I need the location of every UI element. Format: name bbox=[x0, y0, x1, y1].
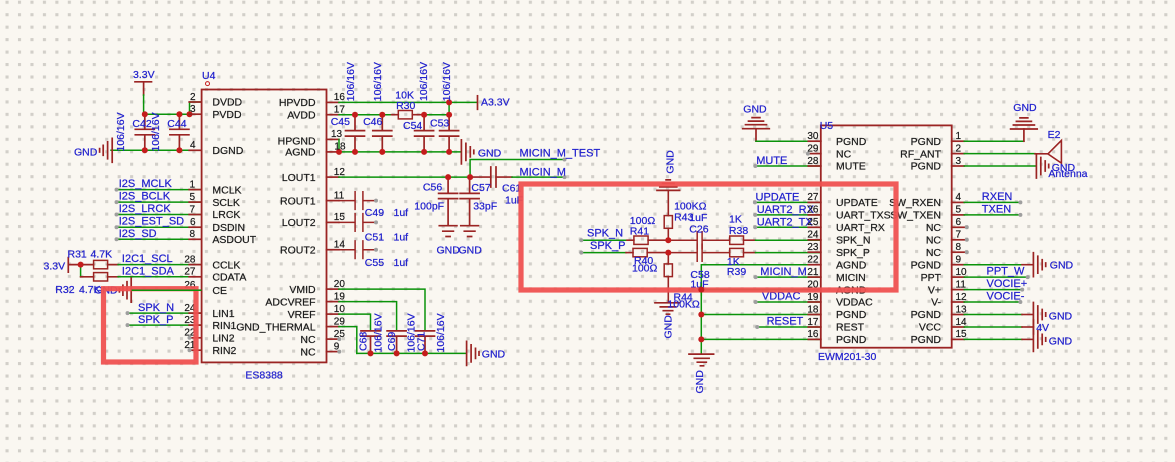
svg-text:GND: GND bbox=[478, 148, 502, 160]
svg-text:24: 24 bbox=[807, 230, 819, 241]
power port 3.3V (top left) bbox=[135, 82, 152, 95]
op-amp/codec IC U4 body bbox=[202, 90, 327, 363]
svg-text:GND: GND bbox=[459, 245, 483, 257]
capacitor C46 bbox=[373, 115, 392, 152]
svg-text:2: 2 bbox=[190, 92, 196, 103]
svg-text:U5: U5 bbox=[820, 120, 834, 132]
svg-text:25: 25 bbox=[807, 217, 819, 228]
wire RXEN bbox=[964, 201, 1020, 203]
wire PGND pin30 bbox=[756, 140, 821, 142]
wire UPDATE bbox=[755, 201, 821, 203]
svg-text:PGND: PGND bbox=[911, 259, 942, 271]
wire PPT_W bbox=[964, 276, 1027, 278]
wire SPK_N (middle) bbox=[581, 239, 627, 241]
svg-text:11: 11 bbox=[334, 190, 345, 201]
wire PGND pin15 bbox=[964, 338, 1022, 340]
svg-text:106/16V: 106/16V bbox=[372, 313, 384, 352]
svg-text:EWM201-30: EWM201-30 bbox=[818, 351, 877, 363]
RF module U5 body bbox=[821, 125, 952, 347]
svg-text:GND: GND bbox=[663, 315, 675, 339]
wire pullup vertical bbox=[80, 265, 82, 277]
svg-text:19: 19 bbox=[334, 291, 346, 302]
wire I2S_SD bbox=[117, 238, 202, 240]
svg-text:5: 5 bbox=[189, 192, 195, 203]
ground GND (above R43) bbox=[657, 180, 680, 191]
svg-text:NC: NC bbox=[926, 235, 942, 247]
svg-text:VMID: VMID bbox=[289, 284, 316, 296]
svg-text:1uf: 1uf bbox=[394, 231, 409, 243]
svg-text:UPDATE: UPDATE bbox=[836, 197, 878, 209]
svg-text:RIN1: RIN1 bbox=[212, 320, 236, 332]
svg-text:17: 17 bbox=[807, 317, 819, 328]
svg-text:C69: C69 bbox=[386, 332, 398, 351]
wire overdraw gnd chain through highlight bbox=[700, 283, 702, 296]
svg-text:3: 3 bbox=[190, 104, 196, 115]
svg-text:CE: CE bbox=[212, 285, 227, 297]
wire AVDD y=114.7 bbox=[339, 114, 449, 116]
svg-text:13: 13 bbox=[331, 129, 343, 140]
svg-text:RXEN: RXEN bbox=[982, 191, 1013, 203]
svg-text:NC: NC bbox=[836, 148, 852, 160]
wire I2C1_SDA bbox=[118, 276, 202, 278]
svg-text:C45: C45 bbox=[331, 116, 350, 128]
svg-text:UPDATE: UPDATE bbox=[756, 191, 800, 203]
U4 NC stubs gray ends bbox=[188, 336, 192, 352]
capacitor C26 (series SPK_N) bbox=[668, 232, 729, 249]
svg-text:10: 10 bbox=[956, 267, 968, 278]
wire CE to ground bbox=[131, 289, 201, 291]
svg-text:3.3V: 3.3V bbox=[44, 261, 66, 273]
power port 4V bar bbox=[1032, 320, 1034, 334]
resistor R43 bbox=[664, 190, 672, 240]
svg-text:VREF: VREF bbox=[288, 309, 316, 321]
svg-text:GND: GND bbox=[743, 103, 767, 115]
svg-text:29: 29 bbox=[334, 316, 346, 327]
svg-text:UART_TXS: UART_TXS bbox=[836, 210, 891, 222]
wire PVDD net y=114.2 bbox=[144, 113, 202, 115]
svg-text:V+: V+ bbox=[928, 284, 941, 296]
resistor R41 bbox=[634, 236, 668, 244]
svg-text:REST: REST bbox=[836, 322, 865, 334]
svg-text:GND_THERMAL: GND_THERMAL bbox=[236, 321, 316, 333]
svg-text:13: 13 bbox=[956, 304, 968, 315]
svg-text:ES8388: ES8388 bbox=[245, 370, 283, 382]
svg-text:PPT_W: PPT_W bbox=[987, 266, 1026, 278]
svg-text:SCLK: SCLK bbox=[212, 197, 239, 209]
svg-text:106/16V: 106/16V bbox=[435, 313, 447, 352]
svg-text:GND: GND bbox=[437, 245, 461, 257]
svg-text:100pF: 100pF bbox=[414, 200, 444, 212]
U5 right pin numbers bbox=[956, 131, 968, 340]
capacitor C53 bbox=[440, 115, 459, 152]
wire RESET bbox=[757, 326, 821, 328]
svg-text:VOCIE-: VOCIE- bbox=[987, 291, 1025, 303]
svg-text:21: 21 bbox=[807, 267, 819, 278]
wire DGND net y=150.3 bbox=[111, 149, 202, 151]
U5 left pin stubs bbox=[808, 141, 821, 339]
svg-text:18: 18 bbox=[334, 142, 346, 153]
ground GND (C56) bbox=[439, 226, 457, 237]
resistor R38 bbox=[730, 236, 756, 244]
svg-text:GND: GND bbox=[665, 150, 677, 174]
U4 designator circle bbox=[206, 82, 210, 86]
highlight rectangle 2 (SPK/UART group) bbox=[521, 184, 896, 290]
wire SPK_N (LIN1) bbox=[128, 312, 202, 314]
ground GND (AGND row) bbox=[461, 140, 473, 164]
wire LOUT1 / MICIN_M y=177.1 bbox=[339, 176, 470, 178]
svg-text:9: 9 bbox=[334, 341, 340, 352]
wire DVDD pin2 vertical bbox=[190, 102, 202, 114]
U4 left pin names bbox=[212, 97, 256, 357]
svg-text:ROUT1: ROUT1 bbox=[280, 195, 316, 207]
svg-text:C55: C55 bbox=[365, 257, 384, 269]
svg-text:LIN2: LIN2 bbox=[212, 333, 234, 345]
power port 3.3V (I2C pullups) bbox=[68, 258, 80, 273]
capacitor C69 bbox=[387, 331, 406, 354]
junction dots AVDD/AGND rows bbox=[336, 99, 452, 154]
svg-text:I2S_LRCK: I2S_LRCK bbox=[119, 203, 172, 215]
svg-text:V-: V- bbox=[931, 297, 941, 309]
capacitor C68 bbox=[361, 331, 380, 354]
svg-text:ASDOUT: ASDOUT bbox=[212, 234, 256, 246]
svg-text:MUTE: MUTE bbox=[836, 161, 866, 173]
svg-text:17: 17 bbox=[334, 105, 346, 116]
svg-text:I2S_SD: I2S_SD bbox=[119, 228, 157, 240]
capacitor C58 (series SPK_P) bbox=[668, 244, 729, 261]
capacitor C57 bbox=[460, 177, 479, 226]
wire MICIN_M to U5 bbox=[756, 276, 821, 278]
wire SPK_P (RIN1) bbox=[128, 324, 202, 326]
svg-text:18: 18 bbox=[807, 304, 819, 315]
capacitor C51 (LOUT2) bbox=[339, 214, 376, 232]
wire I2S_MCLK bbox=[117, 189, 202, 191]
wire UART2_RX bbox=[755, 214, 821, 216]
wire VOCIE- bbox=[964, 301, 1020, 303]
svg-text:5: 5 bbox=[956, 205, 962, 216]
svg-text:GND: GND bbox=[1049, 311, 1073, 323]
svg-text:106/16V: 106/16V bbox=[372, 62, 384, 101]
svg-text:MICIN: MICIN bbox=[836, 272, 866, 284]
svg-text:E2: E2 bbox=[1048, 129, 1061, 141]
svg-text:16: 16 bbox=[807, 329, 819, 340]
svg-text:25: 25 bbox=[334, 329, 346, 340]
svg-text:GND: GND bbox=[694, 370, 706, 394]
resistor R40 bbox=[633, 248, 668, 256]
svg-text:I2S_MCLK: I2S_MCLK bbox=[119, 178, 173, 190]
svg-text:PGND: PGND bbox=[911, 161, 942, 173]
svg-text:NC: NC bbox=[300, 334, 316, 346]
svg-text:4: 4 bbox=[956, 192, 962, 203]
U4 right pin names bbox=[236, 97, 316, 358]
U4 right pin stubs bbox=[327, 102, 339, 351]
svg-text:GND: GND bbox=[1013, 102, 1037, 114]
svg-text:12: 12 bbox=[956, 292, 968, 303]
wire PGND pin3 bbox=[964, 165, 1036, 167]
junction dot pullup bbox=[78, 262, 84, 268]
wire SPK_P (middle) bbox=[581, 252, 626, 254]
ground GND (pin9) bbox=[1033, 253, 1045, 277]
svg-text:1uf: 1uf bbox=[394, 207, 409, 219]
text layer bbox=[44, 62, 1088, 394]
svg-text:GND: GND bbox=[482, 349, 506, 361]
svg-text:GND: GND bbox=[1050, 260, 1074, 272]
svg-text:AVDD: AVDD bbox=[287, 109, 316, 121]
svg-text:106/16V: 106/16V bbox=[418, 62, 430, 101]
svg-text:C46: C46 bbox=[363, 116, 382, 128]
U5 left pin names bbox=[836, 136, 891, 346]
svg-text:1uf: 1uf bbox=[394, 257, 409, 269]
svg-text:1: 1 bbox=[189, 179, 195, 190]
svg-text:30: 30 bbox=[807, 131, 819, 142]
svg-text:23: 23 bbox=[807, 242, 819, 253]
wire VOCIE+ bbox=[964, 289, 1022, 291]
wire VCC 4V pin14 bbox=[964, 326, 1022, 328]
capacitor C42 bbox=[135, 114, 154, 150]
svg-text:HPGND: HPGND bbox=[278, 135, 316, 147]
wire TXEN bbox=[964, 214, 1020, 216]
wire SPK_N to U5 bbox=[756, 239, 821, 241]
resistor R31 bbox=[81, 260, 119, 268]
svg-text:15: 15 bbox=[334, 212, 346, 223]
svg-text:27: 27 bbox=[807, 192, 819, 203]
svg-text:LRCK: LRCK bbox=[212, 209, 240, 221]
svg-text:R38: R38 bbox=[729, 225, 748, 237]
svg-text:DGND: DGND bbox=[212, 145, 243, 157]
svg-text:SPK_P: SPK_P bbox=[836, 247, 870, 259]
wire bottom gnd rail y=353.4 bbox=[357, 352, 466, 354]
svg-text:CDATA: CDATA bbox=[212, 272, 246, 284]
svg-text:7: 7 bbox=[956, 230, 962, 241]
svg-text:MICIN_M: MICIN_M bbox=[760, 266, 806, 278]
junction dots left power bbox=[142, 111, 193, 153]
svg-text:C54: C54 bbox=[403, 120, 422, 132]
capacitor C44 bbox=[170, 114, 189, 150]
antenna E2 bbox=[1048, 140, 1062, 163]
wire RF_ANT pin2 bbox=[964, 153, 1035, 155]
junction dots gnd chain bbox=[698, 312, 704, 343]
svg-text:106/16V: 106/16V bbox=[115, 112, 127, 151]
resistor R30 bbox=[398, 111, 412, 119]
wire PGND pin16 bbox=[701, 338, 821, 340]
svg-text:SPK_P: SPK_P bbox=[590, 240, 625, 252]
svg-text:VCC: VCC bbox=[919, 322, 942, 334]
svg-text:SPK_N: SPK_N bbox=[836, 235, 870, 247]
svg-text:14: 14 bbox=[956, 317, 968, 328]
U5 left pin numbers bbox=[807, 131, 819, 340]
svg-text:6: 6 bbox=[190, 217, 196, 228]
ground GND (CE pin) bbox=[119, 278, 131, 302]
svg-text:15: 15 bbox=[956, 329, 968, 340]
svg-text:SPK_N: SPK_N bbox=[138, 302, 174, 314]
capacitor C56 bbox=[439, 177, 458, 226]
svg-text:GND: GND bbox=[1049, 336, 1073, 348]
capacitor C54 bbox=[415, 115, 434, 152]
ground GND (C57) bbox=[461, 226, 479, 237]
svg-text:26: 26 bbox=[807, 205, 819, 216]
svg-text:I2S_EST_SD: I2S_EST_SD bbox=[119, 216, 184, 228]
svg-text:C57: C57 bbox=[471, 182, 490, 194]
U5 right pin stubs bbox=[952, 141, 965, 339]
svg-text:4.7K: 4.7K bbox=[91, 249, 113, 261]
wire AGND pin20 bbox=[701, 289, 821, 291]
svg-text:NC: NC bbox=[300, 346, 316, 358]
svg-text:PGND: PGND bbox=[836, 334, 867, 346]
svg-text:MICIN_M_TEST: MICIN_M_TEST bbox=[520, 148, 601, 160]
svg-text:U4: U4 bbox=[202, 70, 216, 82]
svg-text:10: 10 bbox=[334, 304, 346, 315]
svg-text:16: 16 bbox=[334, 92, 346, 103]
wire 3.3V vertical drop bbox=[143, 95, 145, 114]
ground GND (pin13) bbox=[1033, 303, 1045, 327]
resistor R32 bbox=[81, 273, 119, 281]
svg-text:R30: R30 bbox=[396, 100, 415, 112]
svg-text:22: 22 bbox=[807, 255, 819, 266]
svg-text:R31: R31 bbox=[68, 249, 87, 261]
ground GND (pin30) bbox=[743, 118, 770, 142]
svg-text:28: 28 bbox=[184, 254, 196, 265]
svg-text:UART2_RX: UART2_RX bbox=[757, 204, 815, 216]
svg-text:I2C1_SDA: I2C1_SDA bbox=[122, 265, 175, 277]
svg-text:PGND: PGND bbox=[911, 136, 942, 148]
svg-text:PGND: PGND bbox=[836, 309, 867, 321]
svg-text:PGND: PGND bbox=[836, 136, 867, 148]
svg-text:3.3V: 3.3V bbox=[133, 69, 155, 81]
wire PGND pin9 bbox=[964, 264, 1022, 266]
highlight rectangle 1 (LIN/RIN group) bbox=[104, 289, 197, 362]
svg-text:28: 28 bbox=[807, 156, 819, 167]
junction dots LOUT1 row bbox=[445, 174, 473, 180]
svg-text:RIN2: RIN2 bbox=[212, 345, 236, 357]
junction dots middle node bbox=[665, 237, 671, 255]
svg-text:106/16V: 106/16V bbox=[150, 112, 162, 151]
svg-text:NC: NC bbox=[926, 247, 942, 259]
svg-text:A3.3V: A3.3V bbox=[481, 97, 510, 109]
svg-text:11: 11 bbox=[956, 279, 967, 290]
svg-text:1uF: 1uF bbox=[689, 212, 707, 224]
svg-text:ADCVREF: ADCVREF bbox=[265, 296, 315, 308]
wire GND_THERMAL pin29 bbox=[339, 327, 357, 354]
svg-text:PVDD: PVDD bbox=[212, 109, 242, 121]
svg-text:106/16V: 106/16V bbox=[441, 62, 453, 101]
svg-text:ROUT2: ROUT2 bbox=[280, 244, 316, 256]
junction dot pin20 on highlight bbox=[698, 287, 704, 293]
svg-text:MUTE: MUTE bbox=[756, 155, 787, 167]
U4 left pin numbers bbox=[184, 92, 196, 351]
svg-text:8: 8 bbox=[956, 242, 962, 253]
svg-text:6: 6 bbox=[956, 217, 962, 228]
svg-text:29: 29 bbox=[807, 143, 819, 154]
svg-text:100Ω: 100Ω bbox=[632, 262, 658, 274]
wire VREF pin10 bbox=[339, 314, 371, 331]
svg-text:3: 3 bbox=[956, 156, 962, 167]
ground GND (left of C42) bbox=[100, 138, 113, 162]
wire PGND pin13 bbox=[964, 314, 1022, 316]
wire AGND y=151.9 bbox=[339, 151, 461, 153]
svg-text:7: 7 bbox=[189, 204, 195, 215]
resistor R39 bbox=[730, 248, 756, 256]
capacitor C61 (series) bbox=[491, 167, 496, 187]
wire I2S_BCLK bbox=[117, 201, 202, 203]
svg-text:GND: GND bbox=[74, 147, 98, 159]
svg-text:PGND: PGND bbox=[911, 309, 942, 321]
wire I2S_LRCK bbox=[117, 214, 202, 216]
svg-text:I2S_BCLK: I2S_BCLK bbox=[119, 191, 171, 203]
wire UART2_TX bbox=[755, 226, 821, 228]
svg-text:LOUT1: LOUT1 bbox=[282, 172, 316, 184]
capacitor C55 (ROUT2) bbox=[339, 241, 376, 259]
svg-text:1K: 1K bbox=[729, 213, 742, 225]
svg-text:PGND: PGND bbox=[911, 334, 942, 346]
svg-text:8: 8 bbox=[189, 229, 195, 240]
svg-text:LOUT2: LOUT2 bbox=[282, 217, 316, 229]
power port A3.3V bbox=[477, 96, 479, 110]
wire ADCVREF pin19 bbox=[339, 302, 397, 331]
svg-text:R41: R41 bbox=[630, 226, 649, 238]
svg-text:CCLK: CCLK bbox=[212, 259, 240, 271]
svg-text:106/16V: 106/16V bbox=[345, 62, 357, 101]
wire MICIN_M after C61 bbox=[496, 176, 512, 178]
svg-text:UART_RX: UART_RX bbox=[836, 222, 885, 234]
junction dots bottom rail bbox=[368, 350, 429, 356]
svg-text:R39: R39 bbox=[727, 266, 746, 278]
svg-text:27: 27 bbox=[184, 267, 196, 278]
svg-text:C56: C56 bbox=[423, 182, 442, 194]
svg-text:SPK_P: SPK_P bbox=[138, 314, 173, 326]
wire I2C1_SCL bbox=[118, 264, 202, 266]
wire VMID pin20 bbox=[339, 289, 425, 331]
ground GND (bottom rail) bbox=[467, 341, 479, 365]
wire HPGND pin13 drop bbox=[338, 139, 340, 152]
ground GND (below R44) bbox=[655, 303, 680, 314]
svg-text:19: 19 bbox=[807, 292, 819, 303]
svg-text:RESET: RESET bbox=[767, 316, 804, 328]
svg-text:C68: C68 bbox=[358, 332, 370, 351]
wire AVDD-HPVDD link vertical bbox=[448, 102, 450, 114]
svg-text:HPVDD: HPVDD bbox=[279, 97, 316, 109]
ground GND (pin3/antenna) bbox=[1036, 154, 1048, 178]
svg-text:R32: R32 bbox=[55, 284, 74, 296]
svg-text:TXEN: TXEN bbox=[982, 203, 1011, 215]
svg-text:C71: C71 bbox=[416, 332, 428, 351]
svg-text:1: 1 bbox=[956, 131, 962, 142]
svg-text:9: 9 bbox=[956, 255, 962, 266]
wire I2S_EST_SD bbox=[117, 226, 202, 228]
svg-text:MICIN_M: MICIN_M bbox=[520, 166, 566, 178]
U5 right pin names bbox=[889, 136, 942, 346]
resistor R44 bbox=[664, 253, 672, 303]
svg-text:Antenna: Antenna bbox=[1048, 168, 1087, 180]
ground GND (below chain) bbox=[689, 354, 714, 366]
ground GND (pin15) bbox=[1033, 327, 1045, 351]
svg-text:RF_ANT: RF_ANT bbox=[900, 148, 941, 160]
svg-text:PPT: PPT bbox=[921, 272, 942, 284]
svg-text:AGND: AGND bbox=[836, 259, 867, 271]
svg-text:I2C1_SCL: I2C1_SCL bbox=[122, 253, 173, 265]
svg-text:VDDAC: VDDAC bbox=[836, 297, 873, 309]
svg-text:2: 2 bbox=[956, 143, 962, 154]
U4 left pin stubs bbox=[189, 102, 201, 350]
svg-text:C44: C44 bbox=[167, 118, 186, 130]
svg-text:NC: NC bbox=[926, 222, 942, 234]
svg-text:C49: C49 bbox=[365, 207, 384, 219]
svg-text:UART2_TX: UART2_TX bbox=[757, 216, 814, 228]
svg-text:100KΩ: 100KΩ bbox=[667, 298, 700, 310]
svg-text:LIN1: LIN1 bbox=[212, 308, 234, 320]
wire VDDAC bbox=[756, 301, 821, 303]
svg-text:AGND: AGND bbox=[285, 147, 316, 159]
svg-text:12: 12 bbox=[334, 167, 346, 178]
wire AGND pin22 to gnd chain bbox=[701, 265, 821, 354]
